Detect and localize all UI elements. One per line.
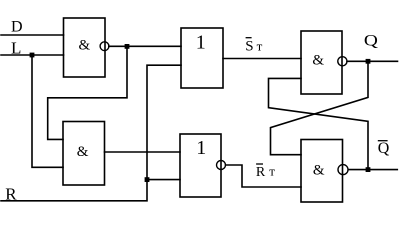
svg-text:&: & — [313, 162, 325, 178]
svg-text:L: L — [11, 38, 21, 57]
svg-text:&: & — [79, 37, 91, 53]
svg-text:т: т — [257, 38, 263, 53]
svg-text:S: S — [245, 38, 253, 54]
svg-text:R: R — [5, 184, 17, 203]
svg-text:Q: Q — [364, 33, 379, 50]
svg-text:1: 1 — [196, 137, 206, 159]
svg-text:&: & — [312, 53, 324, 69]
svg-text:D: D — [11, 19, 23, 36]
svg-text:&: & — [77, 144, 89, 160]
svg-text:1: 1 — [196, 31, 206, 53]
svg-text:т: т — [269, 163, 275, 178]
svg-text:R: R — [256, 165, 266, 180]
svg-text:Q: Q — [378, 140, 390, 157]
